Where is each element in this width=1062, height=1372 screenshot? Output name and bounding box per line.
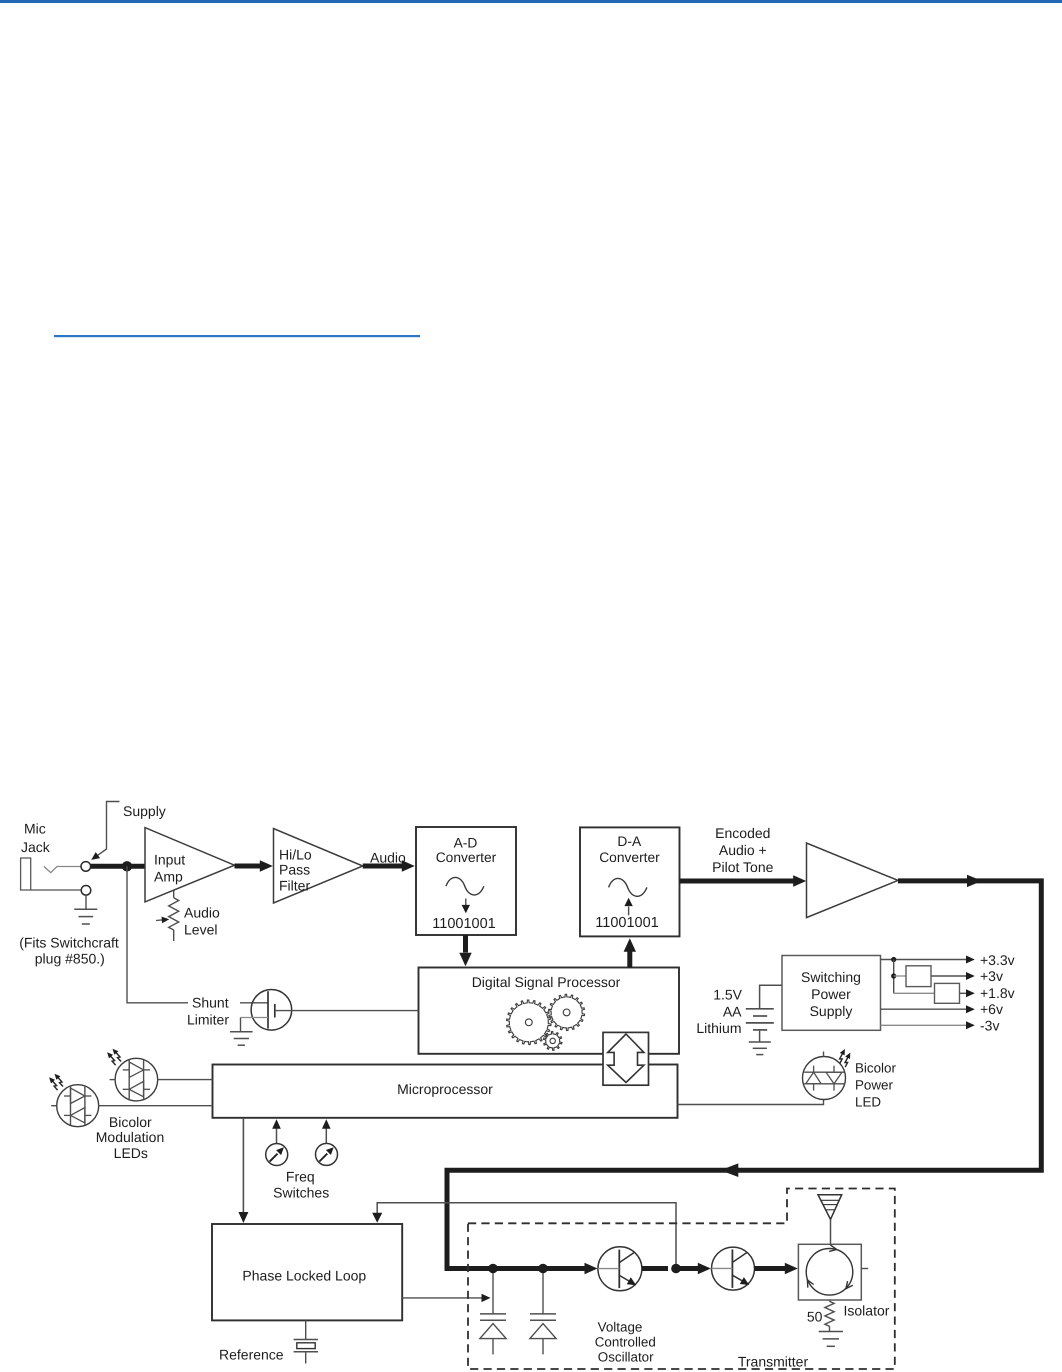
label 1.5V AA Lithium	[696, 987, 742, 1037]
svg-text:Switches: Switches	[273, 1185, 329, 1201]
junction mic node	[122, 861, 132, 871]
enclosure Transmitter (dashed)	[468, 1189, 895, 1370]
svg-text:+1.8v: +1.8v	[980, 985, 1015, 1001]
svg-text:Encoded: Encoded	[715, 825, 770, 841]
wire -3v rail	[881, 1024, 967, 1026]
svg-text:D-A: D-A	[617, 834, 642, 849]
op-amp Input Amp	[145, 828, 235, 902]
svg-text:Voltage: Voltage	[598, 1320, 643, 1335]
svg-text:Input: Input	[154, 852, 185, 868]
svg-text:Isolator: Isolator	[844, 1303, 890, 1319]
block Switching Power Supply	[782, 956, 881, 1031]
wire +3.3v rail	[881, 959, 967, 961]
arrow into PLL left	[238, 1212, 248, 1223]
label Audio Level	[184, 905, 220, 938]
crystal reference	[294, 1320, 318, 1363]
mic jack J1 plug body	[21, 858, 31, 890]
label Fits Switchcraft plug	[19, 935, 119, 967]
resistor 50 ohm	[825, 1300, 834, 1332]
svg-text:Freq: Freq	[286, 1168, 315, 1184]
svg-text:Bicolor: Bicolor	[855, 1060, 896, 1075]
svg-text:Mic: Mic	[24, 821, 46, 837]
arrow supply into tip node	[91, 852, 100, 860]
svg-text:(Fits Switchcraft: (Fits Switchcraft	[19, 935, 119, 951]
svg-text:plug #850.): plug #850.)	[35, 951, 105, 967]
svg-text:1.5V: 1.5V	[713, 987, 742, 1003]
gear small	[543, 1032, 562, 1051]
wire tip contact	[44, 866, 81, 872]
label Freq Switches	[273, 1168, 329, 1200]
svg-text:+3v: +3v	[980, 968, 1003, 984]
svg-text:Converter: Converter	[436, 850, 497, 865]
svg-text:Power: Power	[811, 986, 851, 1002]
block Microprocessor	[213, 1065, 678, 1118]
resistor Audio Level pot	[169, 891, 179, 942]
arrow into Q1	[585, 1263, 598, 1275]
LED bicolor power	[803, 1052, 846, 1100]
label Bicolor Power LED	[855, 1060, 896, 1109]
arrow into isolator	[785, 1263, 798, 1275]
wire Q2 to isolator (thick)	[755, 1266, 786, 1271]
value 11001001 (A-D)	[432, 916, 495, 932]
arrow pot wiper	[156, 917, 169, 924]
filter Hi/Lo Pass	[274, 829, 363, 904]
circulator symbol	[806, 1245, 853, 1295]
switch Freq 1	[266, 1144, 288, 1166]
arrow reconstruct up	[624, 898, 632, 916]
svg-text:Shunt: Shunt	[192, 995, 229, 1011]
label Isolator	[844, 1303, 890, 1319]
label Bicolor Modulation LEDs	[96, 1114, 165, 1161]
label Transmitter	[738, 1353, 809, 1369]
wire VCO to PLL feedback	[377, 1203, 676, 1269]
label +6v	[980, 1001, 1003, 1017]
svg-text:Oscillator: Oscillator	[598, 1350, 654, 1365]
arrow into Q2	[698, 1263, 711, 1275]
wire LED B to micro	[99, 1105, 213, 1107]
switch Freq 2	[316, 1143, 338, 1165]
arrow sample down	[462, 899, 470, 914]
svg-text:Digital Signal Processor: Digital Signal Processor	[472, 974, 621, 990]
svg-text:+3.3v: +3.3v	[980, 952, 1015, 968]
bus DSP-microprocessor bidirectional	[603, 1032, 649, 1085]
ground mic jack	[74, 909, 97, 924]
wire LED A to micro	[158, 1079, 213, 1081]
wire amp output feedback (thick)	[447, 881, 1041, 1269]
label Supply	[123, 803, 166, 819]
arrow into D-A	[624, 938, 636, 952]
top page rule	[0, 0, 1062, 3]
antenna	[818, 1195, 842, 1245]
arrows LED A emission	[107, 1049, 121, 1065]
svg-text:A-D: A-D	[454, 835, 478, 850]
svg-text:Microprocessor: Microprocessor	[397, 1081, 493, 1097]
svg-text:Audio: Audio	[370, 850, 406, 866]
arrow into filter	[260, 860, 273, 872]
wire Q1 to node (thick)	[642, 1266, 668, 1271]
wire sleeve	[31, 889, 81, 891]
label Hi/Lo Pass Filter	[279, 847, 312, 894]
svg-text:50: 50	[807, 1309, 823, 1325]
svg-text:LEDs: LEDs	[114, 1145, 148, 1161]
svg-text:AA: AA	[723, 1004, 742, 1020]
wire A-D to DSP (thick)	[463, 935, 468, 953]
ground shunt limiter	[230, 1032, 253, 1045]
label Voltage Controlled Oscillator	[595, 1320, 656, 1365]
symbol sine wave D-A	[609, 878, 647, 896]
arrow feedback leftward	[720, 1163, 738, 1177]
arrow into A-D	[402, 860, 415, 872]
transistor shunt limiter FET	[241, 990, 292, 1032]
svg-text:Bicolor: Bicolor	[109, 1114, 152, 1130]
svg-text:Reference: Reference	[219, 1347, 284, 1363]
label A-D Converter	[436, 835, 497, 865]
svg-text:Audio +: Audio +	[719, 842, 767, 858]
svg-text:Converter: Converter	[599, 850, 660, 865]
gear medium	[549, 994, 585, 1030]
gear large	[507, 1000, 551, 1045]
block Phase Locked Loop	[212, 1224, 402, 1320]
wire ground stem	[85, 895, 87, 909]
block Digital Signal Processor	[419, 968, 680, 1054]
label +1.8v	[980, 985, 1015, 1001]
label 50	[807, 1309, 823, 1325]
transistor Q1	[598, 1247, 642, 1291]
label Encoded Audio + Pilot Tone	[712, 825, 773, 875]
svg-text:+6v: +6v	[980, 1001, 1003, 1017]
wire +3v out	[931, 975, 967, 977]
wire regulator tap vertical	[893, 960, 895, 994]
wire +6v rail	[881, 1008, 967, 1010]
wire +1.8v out	[960, 992, 967, 994]
label Shunt Limiter	[187, 995, 229, 1028]
label D-A Converter	[599, 834, 660, 865]
arrow +3v	[966, 972, 975, 980]
wire micro to power LED	[678, 1099, 824, 1104]
wire shunt limiter to DSP	[275, 1010, 419, 1012]
regulator block 1.8v	[894, 983, 960, 1003]
label -3v	[980, 1017, 999, 1033]
arrow into power amp	[793, 875, 806, 887]
block A-D Converter	[416, 827, 516, 935]
wire mic to input amp (thick)	[91, 864, 145, 869]
regulator block 3v	[894, 966, 931, 987]
node sleeve contact	[81, 886, 91, 896]
arrows LED B emission	[49, 1074, 63, 1090]
arrow -3v	[966, 1021, 975, 1029]
arrow into DSP	[459, 953, 471, 967]
label Microprocessor	[397, 1081, 493, 1097]
junction varactor D2 node	[538, 1264, 548, 1274]
wire node to Q2 (thick)	[676, 1266, 699, 1271]
LED bicolor modulation A	[110, 1058, 158, 1101]
block isolator	[798, 1244, 861, 1300]
node tip contact	[81, 862, 91, 872]
arrow +3.3v	[966, 956, 975, 964]
svg-text:Audio: Audio	[184, 905, 220, 921]
arrow PLL tune	[482, 1294, 491, 1302]
svg-text:Power: Power	[855, 1077, 893, 1092]
wire into shunt limiter	[240, 1002, 268, 1004]
svg-text:Filter: Filter	[279, 878, 310, 894]
wire D-A to power amp (thick)	[680, 879, 795, 884]
block D-A Converter	[580, 827, 680, 936]
arrow switch 2 to micro	[322, 1119, 331, 1143]
varactor diode D2	[530, 1269, 556, 1355]
varactor diode D1	[480, 1269, 506, 1355]
svg-text:Pass: Pass	[279, 862, 310, 878]
svg-text:Transmitter: Transmitter	[738, 1353, 809, 1369]
port isolator right	[861, 1268, 868, 1270]
label +3.3v	[980, 952, 1015, 968]
transistor Q2	[712, 1247, 755, 1290]
value 11001001 (D-A)	[595, 915, 658, 931]
wire junction drop to shunt limiter	[127, 866, 188, 1003]
arrows LED emission	[840, 1049, 851, 1067]
ground 50 ohm	[819, 1332, 843, 1347]
svg-text:-3v: -3v	[980, 1017, 999, 1033]
svg-text:11001001: 11001001	[595, 915, 658, 931]
junction +3.3v tap	[891, 957, 896, 962]
label Phase Locked Loop	[242, 1267, 366, 1283]
svg-text:Level: Level	[184, 922, 217, 938]
label Mic Jack	[21, 821, 51, 856]
label Reference	[219, 1347, 284, 1363]
svg-text:Lithium: Lithium	[696, 1020, 741, 1036]
junction +3v tap	[891, 973, 896, 978]
amplifier RF power amp	[807, 843, 899, 918]
arrow +1.8v	[966, 989, 975, 997]
LED bicolor modulation B	[51, 1085, 98, 1127]
label Digital Signal Processor	[472, 974, 621, 990]
ground battery	[749, 1042, 771, 1055]
svg-text:Pilot Tone: Pilot Tone	[712, 859, 773, 875]
wire PLL to varactor	[402, 1297, 481, 1299]
wire DSP to D-A (thick)	[627, 952, 632, 968]
wire micro to PLL	[242, 1118, 244, 1212]
svg-text:Supply: Supply	[123, 803, 166, 819]
svg-text:Amp: Amp	[154, 869, 183, 885]
battery 1.5V AA lithium	[746, 985, 782, 1042]
label Input Amp	[154, 852, 185, 885]
svg-text:Jack: Jack	[21, 839, 51, 855]
label +3v	[980, 968, 1003, 984]
wire amp to filter (thick)	[235, 864, 261, 869]
label Switching Power Supply	[801, 969, 861, 1019]
svg-text:Hi/Lo: Hi/Lo	[279, 847, 312, 863]
junction Q1-Q2 node	[671, 1264, 681, 1274]
svg-text:11001001: 11001001	[432, 916, 495, 932]
svg-text:LED: LED	[855, 1095, 881, 1110]
svg-text:Limiter: Limiter	[187, 1012, 229, 1028]
svg-text:Modulation: Modulation	[96, 1129, 165, 1145]
svg-text:Supply: Supply	[810, 1003, 853, 1019]
label Audio net	[370, 850, 406, 866]
svg-text:Switching: Switching	[801, 969, 861, 985]
symbol sine wave A-D	[446, 877, 484, 895]
wire supply	[98, 802, 120, 856]
arrow into PLL top	[372, 1213, 382, 1223]
svg-text:Controlled: Controlled	[595, 1335, 656, 1350]
section underline rule	[54, 335, 420, 337]
svg-text:Phase Locked Loop: Phase Locked Loop	[242, 1267, 366, 1283]
wire filter to A-D (thick)	[363, 864, 402, 869]
arrow switch 1 to micro	[272, 1119, 281, 1143]
arrow +6v	[966, 1005, 975, 1013]
arrow on amp output	[967, 875, 982, 887]
junction varactor D1 node	[488, 1264, 498, 1274]
